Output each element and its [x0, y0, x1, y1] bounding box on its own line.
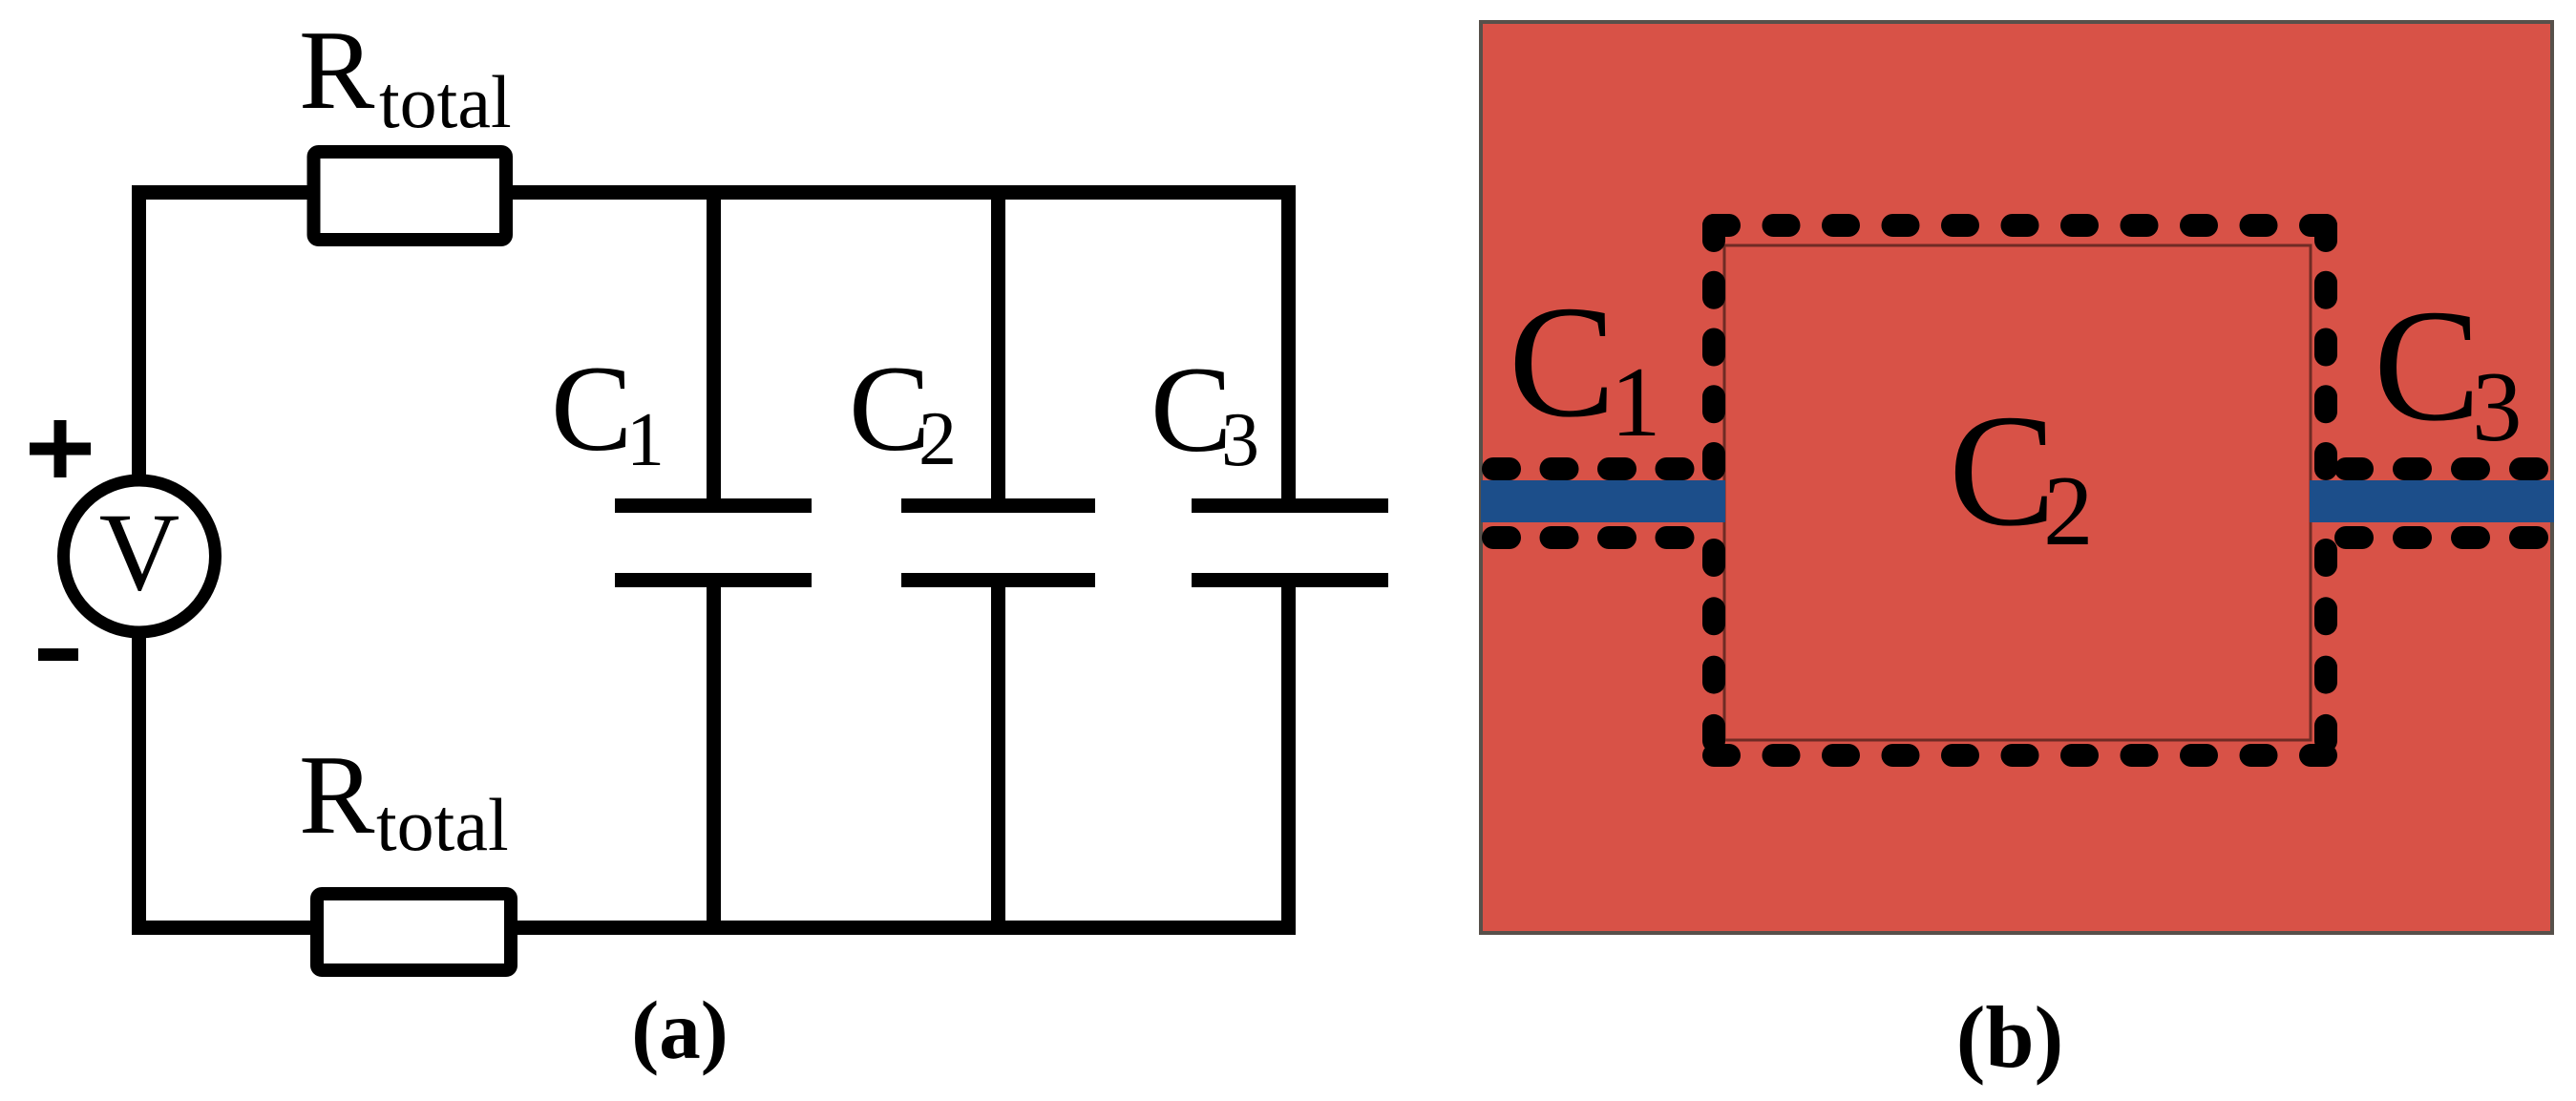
svg-text:3: 3 — [2472, 350, 2523, 462]
svg-text:C: C — [1151, 342, 1232, 477]
svg-text:total: total — [379, 60, 512, 143]
dashed row above right blue bar — [2346, 457, 2537, 480]
wire bottom horizontal — [132, 921, 1296, 935]
wire C1 riser upper — [707, 185, 721, 506]
dashed row below right blue bar — [2346, 526, 2537, 549]
capacitor C1 bottom plate — [615, 573, 812, 587]
dashed outline top edge — [1714, 214, 2326, 237]
plus sign vertical bar — [54, 420, 67, 477]
svg-text:V: V — [99, 491, 180, 614]
minus sign — [38, 648, 78, 661]
capacitor C3 bottom plate — [1192, 573, 1388, 587]
wire C3 riser upper — [1281, 185, 1296, 506]
svg-text:2: 2 — [2043, 455, 2094, 566]
capacitor C2 top plate — [901, 498, 1095, 513]
svg-text:(b): (b) — [1956, 988, 2063, 1086]
capacitor C3 top plate — [1192, 498, 1388, 513]
plus sign horizontal bar — [30, 443, 91, 455]
svg-text:R: R — [299, 731, 375, 858]
resistor R_total bottom — [317, 894, 511, 970]
wire C2 riser lower — [991, 580, 1005, 935]
wire C1 riser lower — [707, 580, 721, 935]
svg-text:total: total — [376, 783, 509, 866]
svg-text:2: 2 — [918, 397, 957, 481]
svg-text:1: 1 — [626, 398, 665, 482]
blue bar right (C3 electrode) — [2310, 480, 2554, 522]
wire left vertical lower — [132, 632, 146, 935]
svg-text:C: C — [1509, 273, 1615, 451]
svg-text:3: 3 — [1221, 398, 1259, 482]
capacitor C2 bottom plate — [901, 573, 1095, 587]
svg-text:C: C — [1949, 382, 2056, 560]
blue bar left (C1 electrode) — [1481, 480, 1725, 522]
svg-text:C: C — [551, 341, 632, 476]
wire C3 riser lower — [1281, 580, 1296, 935]
dashed outline left edge lower — [1702, 550, 1725, 741]
dashed outline left edge upper — [1702, 225, 1725, 469]
inner solid rectangle C2 region — [1724, 245, 2311, 740]
dashed row above left blue bar — [1493, 457, 1683, 480]
svg-text:(a): (a) — [631, 984, 728, 1076]
wire left vertical upper — [132, 185, 146, 481]
resistor R_total top — [314, 152, 507, 240]
dashed outline right edge upper — [2314, 225, 2337, 469]
wire top horizontal — [132, 185, 1296, 200]
svg-text:R: R — [299, 7, 375, 133]
svg-text:C: C — [2374, 277, 2481, 455]
dashed outline bottom edge — [1714, 744, 2326, 767]
dashed row below left blue bar — [1493, 526, 1683, 549]
voltage source V circle — [64, 480, 216, 632]
capacitor C1 top plate — [615, 498, 812, 513]
svg-text:1: 1 — [1611, 346, 1661, 457]
dashed outline right edge lower — [2314, 550, 2337, 741]
wire C2 riser upper — [991, 185, 1005, 506]
red substrate panel (b) — [1481, 22, 2552, 933]
